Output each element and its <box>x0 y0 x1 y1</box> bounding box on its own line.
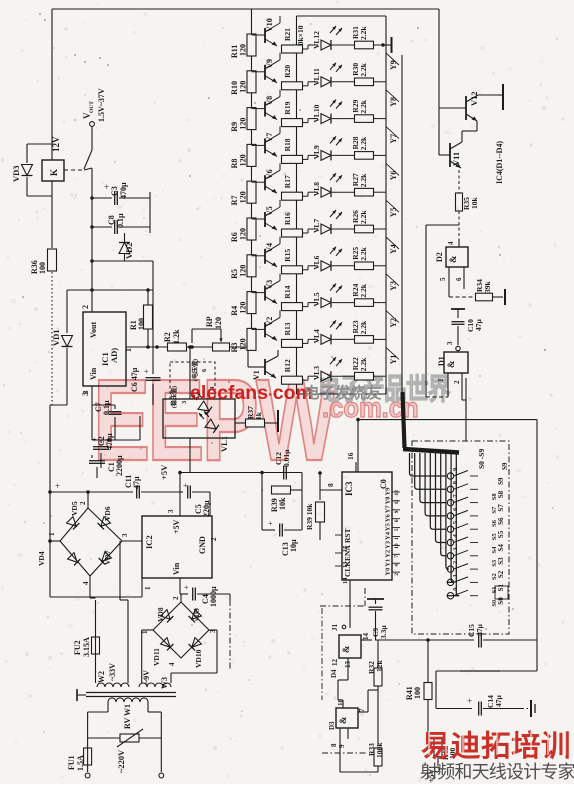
svg-text:VL7: VL7 <box>312 219 321 233</box>
svg-text:Y0: Y0 <box>385 568 392 576</box>
svg-text:VL11: VL11 <box>312 68 321 86</box>
svg-text:C3: C3 <box>110 186 119 196</box>
svg-text:V12: V12 <box>469 91 479 106</box>
resistor R39b <box>305 471 325 540</box>
svg-text:16: 16 <box>346 452 355 460</box>
svg-text:VL10: VL10 <box>312 104 321 122</box>
wire c4 drop <box>181 594 230 602</box>
wire left bus mid dashed <box>51 300 53 405</box>
svg-text:Vout: Vout <box>89 322 98 338</box>
label S0-S9 <box>477 449 509 607</box>
capacitor C10 <box>452 319 484 346</box>
svg-text:10k: 10k <box>278 497 287 510</box>
watermark EEPW big letters <box>93 355 337 485</box>
svg-text:5: 5 <box>439 277 447 281</box>
svg-text:+: + <box>467 696 472 706</box>
resistor R35 <box>456 170 480 239</box>
svg-text:Vin: Vin <box>172 562 181 575</box>
wire pin2 stub <box>90 288 94 312</box>
svg-text:S8: S8 <box>491 493 498 501</box>
wire d3 out <box>368 690 378 712</box>
ic3 left pins <box>335 528 352 584</box>
svg-text:2.2k: 2.2k <box>359 173 368 187</box>
node mains term 2 <box>159 773 164 778</box>
wire bridge1 top <box>86 490 90 508</box>
svg-text:+: + <box>104 182 109 192</box>
diode VD3 <box>11 144 52 196</box>
svg-text:S4: S4 <box>491 546 498 554</box>
wire c3c8 join <box>149 192 151 233</box>
wire vd2 row <box>90 259 153 263</box>
capacitor C5 <box>180 481 211 517</box>
svg-text:RV W1: RV W1 <box>123 704 132 729</box>
relay K1 <box>42 160 64 181</box>
svg-text:8: 8 <box>330 743 338 747</box>
resistor R34 <box>475 279 505 305</box>
capacitor C12 <box>274 449 291 480</box>
wire d1 to box <box>465 378 467 441</box>
svg-text:J1: J1 <box>331 624 339 632</box>
svg-text:3.3µ: 3.3µ <box>379 625 388 639</box>
svg-text:12: 12 <box>331 659 339 667</box>
svg-text:1: 1 <box>124 348 133 352</box>
wire right drop <box>152 261 154 290</box>
svg-text:Y2: Y2 <box>389 318 398 328</box>
svg-text:K: K <box>49 169 59 176</box>
svg-text:VD4: VD4 <box>37 551 46 566</box>
ic3 output pins Y9-Y0 <box>385 487 401 576</box>
boundary gate dashdot <box>320 588 368 753</box>
svg-text:R13: R13 <box>283 322 292 335</box>
boundary dashdot <box>229 600 231 670</box>
svg-text:+: + <box>184 583 189 592</box>
svg-text:V3: V3 <box>265 280 274 290</box>
svg-text:+: + <box>55 481 60 491</box>
block switch box dashed <box>412 441 509 634</box>
svg-text:AD): AD) <box>109 348 119 363</box>
svg-text:电子发烧友: 电子发烧友 <box>304 383 382 402</box>
diode VD2 <box>119 233 134 261</box>
wire to V1 base <box>248 347 261 367</box>
svg-text:4: 4 <box>168 662 176 666</box>
wire left bus lower <box>50 405 67 597</box>
node mains term 1 <box>85 773 90 778</box>
svg-text:120: 120 <box>239 191 248 203</box>
svg-text:2: 2 <box>453 380 461 384</box>
labels Y1-Y9 <box>386 53 399 364</box>
led VL1a <box>192 392 212 415</box>
winding W2 <box>97 663 129 687</box>
block VL1 box <box>163 399 235 438</box>
wire d2 left loop <box>426 225 459 397</box>
wire bridge1 to fu2 <box>90 576 96 598</box>
wire vl1 top <box>188 345 192 399</box>
svg-text:14: 14 <box>362 633 370 641</box>
svg-text:2: 2 <box>394 573 400 576</box>
wire d1 out <box>462 385 466 410</box>
svg-text:120: 120 <box>239 228 248 240</box>
svg-text:120: 120 <box>239 338 248 350</box>
svg-text:VD2: VD2 <box>124 242 134 259</box>
ic3 pin16 <box>346 452 356 472</box>
svg-text:RP: RP <box>205 316 214 327</box>
wire bundle fan <box>410 453 460 596</box>
svg-text:S5: S5 <box>491 533 498 541</box>
resistor R33 <box>340 739 384 772</box>
svg-text:1: 1 <box>394 537 400 540</box>
watermark bottom red brand <box>421 729 571 763</box>
svg-text:射频和天线设计专家: 射频和天线设计专家 <box>420 762 574 782</box>
svg-text:4: 4 <box>447 241 455 245</box>
svg-text:1.5A: 1.5A <box>76 755 85 771</box>
wire pin8 stub <box>320 483 342 490</box>
svg-text:V9: V9 <box>265 59 274 69</box>
svg-text:CLK: CLK <box>343 561 352 577</box>
wire ladder outer bus <box>401 55 403 392</box>
svg-text:470µ: 470µ <box>119 182 128 199</box>
svg-text:S6: S6 <box>491 519 498 527</box>
transistor V1 <box>252 350 278 380</box>
svg-text:1: 1 <box>452 574 459 577</box>
svg-text:S1: S1 <box>491 587 498 594</box>
svg-text:100k: 100k <box>375 742 384 758</box>
wire primary loop <box>88 702 162 772</box>
wire d4 pin13 loop <box>338 668 348 708</box>
svg-text:2.2k: 2.2k <box>359 62 368 76</box>
svg-text:+: + <box>144 367 149 376</box>
svg-text:S6: S6 <box>497 517 505 525</box>
watermark gray solid text <box>304 383 382 402</box>
wire w2 right up <box>120 541 128 683</box>
svg-text:V11: V11 <box>451 152 461 166</box>
wire pin5 net <box>449 273 474 297</box>
svg-text:2.2k: 2.2k <box>359 357 368 371</box>
led VL1b <box>199 411 229 452</box>
ground gnd-c14 <box>520 700 535 717</box>
svg-text:&: & <box>446 360 456 368</box>
capacitor C13 <box>262 490 302 556</box>
svg-text:5: 5 <box>394 528 400 531</box>
svg-text:470µ: 470µ <box>105 433 114 450</box>
svg-text:Y9: Y9 <box>389 60 398 70</box>
resistor R41 <box>405 683 432 701</box>
ic4 label <box>495 141 504 184</box>
svg-text:Y1: Y1 <box>389 355 398 365</box>
svg-text:S4: S4 <box>497 544 505 552</box>
svg-text:47µ: 47µ <box>494 695 503 708</box>
resistor R37 <box>235 406 271 427</box>
svg-text:S3: S3 <box>491 559 498 567</box>
gate D3 <box>328 699 368 749</box>
svg-text:R2: R2 <box>163 332 172 342</box>
svg-text:IC2: IC2 <box>144 535 154 549</box>
svg-text:OUT: OUT <box>89 101 95 113</box>
svg-text:9: 9 <box>338 744 346 748</box>
svg-text:2: 2 <box>452 561 459 564</box>
svg-text:FU1: FU1 <box>67 755 76 770</box>
resistor R32 <box>367 640 428 745</box>
wire d1 pin1 net <box>426 396 448 398</box>
svg-text:11: 11 <box>394 499 400 504</box>
svg-text:Y6: Y6 <box>389 171 398 181</box>
svg-text:D2: D2 <box>435 252 444 262</box>
svg-text:120: 120 <box>239 44 248 56</box>
svg-text:0: 0 <box>452 587 459 590</box>
svg-text:1k: 1k <box>254 411 263 420</box>
svg-text:Y2: Y2 <box>385 550 392 558</box>
svg-text:6: 6 <box>394 519 400 522</box>
winding W1 primary <box>108 698 148 729</box>
node +5V terminal <box>427 767 439 783</box>
svg-text:V4: V4 <box>265 243 274 253</box>
node Vout label <box>82 88 106 122</box>
resistor R40 <box>428 738 457 766</box>
capacitor C14 <box>436 695 520 716</box>
wire bridge1 left <box>48 539 60 543</box>
wire net16 row <box>356 418 537 472</box>
winding W3 <box>139 670 171 689</box>
svg-text:V5: V5 <box>265 206 274 216</box>
svg-text:2.2k: 2.2k <box>359 26 368 40</box>
svg-text:VL5: VL5 <box>312 292 321 306</box>
svg-text:3: 3 <box>121 533 129 537</box>
svg-text:+: + <box>183 481 188 490</box>
wire ic1 bottom <box>82 386 92 440</box>
svg-text:V6: V6 <box>265 169 274 179</box>
wire Vout rail <box>84 168 92 290</box>
resistor R1 <box>129 288 153 347</box>
svg-text:2.2k: 2.2k <box>359 246 368 260</box>
capacitor C6 <box>130 290 161 405</box>
wire ic2 feed <box>179 473 181 517</box>
ground gnd-c9 <box>367 599 384 604</box>
capacitor C8 <box>92 213 150 234</box>
wire d3 gnd loop <box>340 739 378 772</box>
svg-text:V1: V1 <box>252 370 261 380</box>
watermark elecfans.com red <box>190 382 313 404</box>
svg-text:RST: RST <box>343 528 352 543</box>
node j1 <box>90 196 94 229</box>
transistors V2-V10 <box>252 16 281 340</box>
svg-text:elecfans·com: elecfans·com <box>190 382 313 404</box>
svg-text:S2: S2 <box>491 573 498 580</box>
svg-text:R12: R12 <box>283 359 292 372</box>
gate D1 <box>437 341 468 397</box>
svg-text:S3: S3 <box>497 557 505 565</box>
svg-text:S9: S9 <box>497 477 505 485</box>
svg-text:220µ: 220µ <box>202 500 211 517</box>
svg-text:120: 120 <box>239 118 248 130</box>
wire bridge1 right <box>122 540 142 542</box>
base resistors R3-R11 <box>230 34 256 352</box>
svg-text:Y5: Y5 <box>389 207 398 217</box>
switch S-K contact <box>84 150 92 169</box>
svg-text:~9V: ~9V <box>142 670 151 684</box>
svg-text:7: 7 <box>394 555 400 558</box>
svg-text:+: + <box>268 519 273 528</box>
svg-text:V10: V10 <box>265 18 274 32</box>
node Vout terminal <box>90 122 95 150</box>
svg-text:120: 120 <box>239 154 248 166</box>
svg-text:R17: R17 <box>283 175 292 188</box>
svg-text:0.01µ: 0.01µ <box>282 449 291 467</box>
svg-text:C8: C8 <box>107 215 116 225</box>
svg-text:2.2k: 2.2k <box>359 99 368 113</box>
svg-text:47µ: 47µ <box>132 476 141 489</box>
ic-counter IC3 <box>342 472 392 580</box>
svg-text:S2: S2 <box>497 570 505 578</box>
svg-text:6: 6 <box>455 277 463 281</box>
watermark gray chinese outline <box>318 373 451 405</box>
resistor R39a <box>262 486 302 512</box>
svg-text:~220V: ~220V <box>116 749 126 773</box>
wire ic3 bottom stub <box>349 580 351 628</box>
svg-text:R19: R19 <box>283 101 292 114</box>
svg-text:1.2k: 1.2k <box>172 329 181 344</box>
wire top rail <box>52 8 439 10</box>
svg-text:W2: W2 <box>97 671 106 683</box>
ladder box <box>297 16 387 394</box>
wire bundle thick <box>403 392 460 453</box>
label 10kx10 <box>296 25 305 49</box>
svg-text:100: 100 <box>38 262 47 274</box>
svg-text:Y8: Y8 <box>389 97 398 107</box>
resistor R36 <box>30 181 57 300</box>
capacitor C11 <box>48 475 180 499</box>
bridge VD8-VD11 <box>141 596 217 668</box>
svg-text:R15: R15 <box>283 249 292 262</box>
ground ladder top right <box>381 37 391 53</box>
svg-text:S5: S5 <box>497 530 505 538</box>
svg-text:R14: R14 <box>283 285 292 298</box>
wire left bus upper <box>51 9 53 160</box>
svg-text:3: 3 <box>446 341 454 345</box>
node 12V label <box>51 136 61 152</box>
svg-text:120: 120 <box>214 317 223 329</box>
svg-text:2: 2 <box>81 305 90 309</box>
svg-text:&: & <box>448 255 458 263</box>
svg-text:D4: D4 <box>330 669 338 678</box>
wire r41 column <box>426 638 430 738</box>
svg-text:V7: V7 <box>265 133 274 143</box>
svg-text:10: 10 <box>337 699 345 707</box>
wire rail right drop <box>260 471 302 490</box>
resistor R12 wire <box>251 350 253 359</box>
svg-text:D3: D3 <box>328 721 336 730</box>
svg-text:VD5: VD5 <box>70 501 79 516</box>
svg-text:4: 4 <box>82 581 90 585</box>
varistor RV <box>88 729 162 747</box>
capacitor C9 <box>369 607 389 640</box>
svg-text:1: 1 <box>144 586 152 590</box>
svg-text:12k: 12k <box>375 660 384 673</box>
svg-text:2: 2 <box>210 537 218 541</box>
capacitor C2 <box>92 433 114 468</box>
fuse FU1 <box>67 748 92 772</box>
svg-text:Y6: Y6 <box>385 514 392 523</box>
svg-text:Y7: Y7 <box>385 505 392 514</box>
svg-text:1: 1 <box>48 532 56 536</box>
svg-text:VL12: VL12 <box>312 31 321 49</box>
svg-text:S9: S9 <box>501 462 509 470</box>
svg-text:V8: V8 <box>265 96 274 106</box>
svg-text:1.5V~37V: 1.5V~37V <box>97 88 106 122</box>
capacitor C3 <box>92 182 150 205</box>
svg-text:10µ: 10µ <box>289 539 298 552</box>
resistor R2 <box>163 329 213 351</box>
wire bottom gnd row <box>50 578 142 597</box>
potentiometer RP <box>192 316 248 351</box>
svg-text:2200µ: 2200µ <box>115 455 124 476</box>
block dashed aux <box>170 359 216 408</box>
svg-text:2.2k: 2.2k <box>359 283 368 297</box>
svg-text:Y4: Y4 <box>385 531 392 540</box>
ground gnd-c10 <box>451 309 465 318</box>
watermark pink com.cn <box>322 392 419 423</box>
svg-text:C6 47µ: C6 47µ <box>130 367 139 392</box>
svg-text:100: 100 <box>413 687 422 699</box>
svg-text:120: 120 <box>239 265 248 277</box>
svg-text:(稳压值): (稳压值) <box>170 386 178 408</box>
svg-text:VL9: VL9 <box>312 145 321 159</box>
svg-text:S1: S1 <box>497 584 505 592</box>
emitter resistors R12-R21 <box>282 28 303 384</box>
svg-text:S0 -S9: S0 -S9 <box>477 449 486 469</box>
ground gnd-r37 <box>271 410 278 432</box>
diode VD1 <box>51 329 73 405</box>
svg-text:ENA: ENA <box>343 545 352 561</box>
svg-text:(电压值): (电压值) <box>191 359 199 381</box>
svg-text:&: & <box>341 645 351 653</box>
svg-text:9: 9 <box>394 510 400 513</box>
svg-text:Vin: Vin <box>89 367 98 380</box>
ic-reg IC1 <box>81 305 133 396</box>
wire top right drop <box>438 9 440 155</box>
transistor V11 <box>439 131 477 168</box>
svg-text:S8: S8 <box>497 490 505 498</box>
svg-text:4: 4 <box>394 564 400 567</box>
svg-text:S0: S0 <box>491 600 498 607</box>
capacitor C1 <box>89 455 124 478</box>
svg-text:D1: D1 <box>437 356 446 366</box>
capacitor C15 <box>428 624 537 648</box>
svg-text:2: 2 <box>79 501 87 505</box>
svg-text:0.1µ: 0.1µ <box>102 400 111 415</box>
svg-text:VD8: VD8 <box>156 607 165 622</box>
svg-text:W3: W3 <box>160 677 169 689</box>
svg-text:3: 3 <box>82 390 90 394</box>
svg-text:Y1: Y1 <box>385 559 392 567</box>
svg-text:+5V: +5V <box>159 464 169 480</box>
svg-text:C0: C0 <box>379 479 388 489</box>
watermark bottom gray slogan <box>420 762 574 782</box>
leds VL3-VL12 and resistors R22-R31 <box>302 26 386 382</box>
capacitor C4 <box>180 578 230 607</box>
svg-text:120: 120 <box>239 81 248 93</box>
svg-text:47µ: 47µ <box>475 624 484 637</box>
svg-text:1: 1 <box>437 378 445 382</box>
svg-text:&: & <box>338 716 348 724</box>
node ~220V label <box>116 749 126 773</box>
svg-text:IC4(D1--D4): IC4(D1--D4) <box>495 141 504 184</box>
wire vl1 bottom <box>189 438 191 472</box>
svg-text:Y4: Y4 <box>389 244 398 254</box>
gate D4 <box>330 624 372 679</box>
svg-text:1000µ: 1000µ <box>209 586 218 607</box>
transistor V12 <box>439 84 503 131</box>
svg-text:VL8: VL8 <box>312 182 321 196</box>
svg-text:3: 3 <box>167 509 175 513</box>
